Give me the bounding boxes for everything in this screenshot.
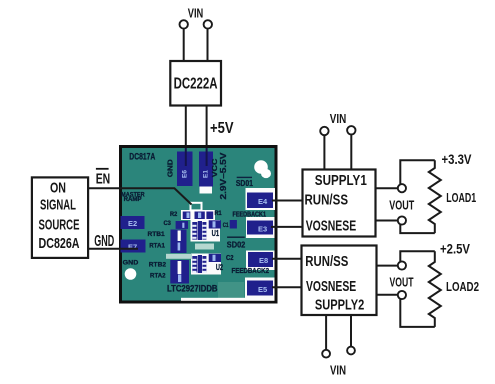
svg-text:GND: GND — [123, 259, 139, 266]
capacitor C4 pad — [230, 220, 237, 229]
svg-text:VOSNESE: VOSNESE — [306, 217, 357, 234]
wire VIN left lead to DC222A — [183, 29, 185, 62]
capacitor C2 pads — [209, 254, 221, 262]
wire VCC lead into pad E1 — [206, 148, 208, 166]
supply1 box — [303, 170, 376, 237]
svg-text:SIGNAL: SIGNAL — [40, 197, 76, 214]
svg-text:RUN/SS: RUN/SS — [305, 253, 348, 270]
svg-text:E6: E6 — [182, 170, 189, 178]
svg-text:FEEDBACK2: FEEDBACK2 — [232, 268, 270, 275]
svg-text:FEEDBACK1: FEEDBACK1 — [233, 211, 267, 218]
svg-text:GND: GND — [94, 233, 114, 250]
svg-text:VOUT: VOUT — [389, 199, 414, 213]
turret pad E6 GND top — [177, 152, 193, 187]
terminal VOUT2 bottom — [398, 291, 406, 299]
wire VIN lead SUPPLY1 right — [350, 135, 352, 170]
wire VIN right lead to DC222A — [207, 29, 209, 62]
svg-text:DC222A: DC222A — [174, 76, 218, 93]
svg-text:VIN: VIN — [188, 7, 204, 21]
mounting hole bottom-left — [125, 268, 137, 280]
svg-text:E7: E7 — [128, 243, 137, 252]
wire DC222A +5V lead to board — [206, 106, 208, 149]
svg-text:E2: E2 — [128, 219, 137, 228]
resistor C3 band — [176, 221, 188, 229]
terminal VIN supply1 right — [347, 126, 355, 134]
svg-text:EN: EN — [96, 172, 111, 188]
svg-text:RTB1: RTB1 — [148, 231, 166, 238]
white pockets right column — [246, 188, 276, 210]
svg-text:LTC2927IDDB: LTC2927IDDB — [167, 284, 218, 294]
svg-text:E8: E8 — [259, 256, 268, 265]
wire DC222A GND lead to board — [185, 106, 187, 149]
supply2 box — [302, 246, 377, 316]
wire GND lead into pad E6 — [185, 148, 187, 166]
terminal VOUT1 bottom — [398, 216, 406, 224]
svg-text:RAMP: RAMP — [124, 196, 143, 203]
turret pad E8 — [248, 252, 273, 267]
load2 loop wiring — [400, 251, 435, 261]
svg-text:2.9V–5.5V: 2.9V–5.5V — [219, 152, 228, 200]
svg-text:+3.3V: +3.3V — [442, 152, 472, 167]
svg-text:VIN: VIN — [330, 364, 346, 378]
svg-text:RTA1: RTA1 — [149, 242, 165, 249]
terminal VIN supply1 left — [320, 127, 328, 135]
resistor LOAD1 — [429, 160, 441, 233]
svg-text:LOAD1: LOAD1 — [446, 190, 476, 205]
wire supply2 VIN right lead — [350, 315, 352, 346]
resistor cluster RTB2/RTA2 — [170, 260, 189, 284]
demo board DC817A PCB — [121, 147, 277, 303]
wire E3 to SUPPLY1 VOSNESE — [271, 226, 303, 228]
capacitor C1 pads — [209, 220, 221, 228]
svg-text:VOSNESE: VOSNESE — [306, 278, 356, 295]
svg-text:E5: E5 — [258, 285, 267, 294]
terminal VIN supply2 right — [347, 347, 355, 355]
resistor cluster RTB1/RTA1 — [171, 230, 187, 254]
turret pad E5 — [247, 281, 273, 296]
wire supply1 VOUT bottom stub — [376, 220, 398, 222]
signal source box DC826A — [32, 177, 88, 258]
wire supply2 VOUT top stub — [377, 265, 398, 267]
svg-text:+5V: +5V — [210, 120, 234, 137]
svg-text:DC826A: DC826A — [39, 235, 80, 252]
converter U-DC222A box — [170, 61, 221, 106]
svg-text:DC817A: DC817A — [129, 151, 155, 161]
resistor network R2 row — [183, 212, 214, 220]
svg-text:R2: R2 — [170, 211, 178, 218]
wire supply2 VIN left lead — [325, 315, 327, 350]
resistor LOAD2 — [429, 251, 441, 327]
wire EN from source onto board — [88, 188, 191, 204]
wire supply2 VOUT bottom stub — [377, 294, 398, 296]
svg-text:U1: U1 — [212, 229, 220, 238]
svg-text:SUPPLY1: SUPPLY1 — [315, 172, 367, 189]
svg-text:E1: E1 — [203, 170, 210, 178]
IC U2 footprint — [192, 256, 197, 273]
svg-text:R1: R1 — [215, 210, 222, 217]
svg-text:VCC: VCC — [210, 158, 219, 177]
terminal VOUT1 top — [398, 184, 406, 192]
svg-text:C2: C2 — [226, 255, 234, 262]
terminal VIN supply2 left — [322, 350, 330, 358]
wire supply1 VOUT top stub — [376, 187, 398, 189]
wire E5 to SUPPLY2 VOSNESE — [272, 286, 302, 288]
svg-text:C3: C3 — [164, 220, 172, 227]
svg-text:VIN: VIN — [330, 112, 347, 126]
turret pad E3 — [247, 221, 273, 235]
turret pad E7 GND left — [121, 240, 146, 253]
wire VIN lead SUPPLY1 left — [323, 135, 325, 169]
svg-text:SOURCE: SOURCE — [39, 216, 80, 233]
svg-text:ON: ON — [50, 179, 66, 196]
turret pad E2 master ramp — [121, 216, 145, 229]
svg-text:U2: U2 — [216, 263, 223, 272]
svg-text:GND: GND — [166, 159, 175, 178]
svg-text:RTB2: RTB2 — [149, 261, 167, 268]
svg-text:SD02: SD02 — [227, 240, 246, 249]
turret pad E4 — [247, 193, 273, 209]
svg-text:LOAD2: LOAD2 — [446, 279, 479, 294]
wire GND from source onto board pad E7 — [88, 248, 138, 250]
svg-text:RUN/SS: RUN/SS — [305, 192, 349, 209]
terminal VIN top-left — [180, 20, 188, 28]
svg-text:C1: C1 — [223, 222, 229, 229]
svg-text:+2.5V: +2.5V — [440, 241, 470, 256]
EN entry box on board — [191, 203, 202, 211]
mounting hole top-right — [254, 160, 268, 174]
svg-text:VOUT: VOUT — [390, 275, 414, 289]
svg-text:E3: E3 — [258, 225, 267, 234]
wire E8 to SUPPLY2 RUN/SS — [272, 258, 302, 260]
load1 loop wiring — [400, 160, 435, 184]
wire E4 to SUPPLY1 RUN/SS — [272, 200, 303, 202]
IC U1 footprint — [192, 222, 197, 240]
courtyard white patches — [181, 210, 215, 220]
svg-text:E4: E4 — [258, 197, 268, 206]
svg-text:RTA2: RTA2 — [150, 272, 166, 279]
turret pad E1 VCC top — [199, 152, 213, 187]
svg-text:SD01: SD01 — [236, 178, 253, 188]
terminal VOUT2 top — [398, 261, 406, 269]
terminal VIN top-right — [204, 20, 212, 28]
svg-text:SUPPLY2: SUPPLY2 — [315, 297, 364, 314]
